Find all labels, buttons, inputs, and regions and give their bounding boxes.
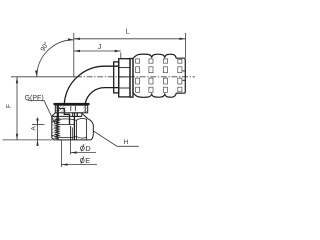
svg-text:F: F [5,104,12,108]
svg-text:A: A [31,126,38,131]
svg-text:H: H [124,139,129,146]
svg-text:D: D [85,144,90,153]
svg-text:E: E [85,156,90,165]
svg-text:90°: 90° [39,40,51,53]
svg-text:J: J [98,44,102,51]
svg-text:L: L [126,29,130,36]
svg-text:G(PF): G(PF) [25,95,44,102]
